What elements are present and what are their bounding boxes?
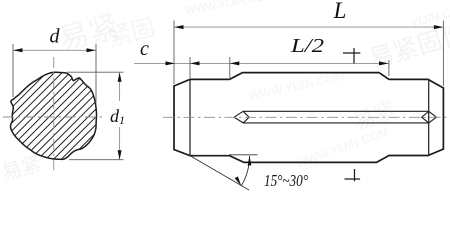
- svg-text:d: d: [50, 26, 61, 48]
- svg-text:15°~30°: 15°~30°: [264, 171, 308, 190]
- svg-text:L/2: L/2: [290, 35, 324, 57]
- svg-text:c: c: [140, 38, 149, 60]
- svg-text:L: L: [333, 0, 347, 23]
